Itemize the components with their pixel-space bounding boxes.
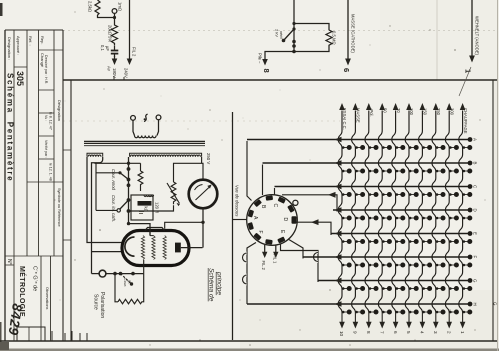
svg-text:1: 1	[464, 69, 473, 73]
grid 1 squiggle	[141, 236, 144, 260]
svg-text:µF: µF	[105, 46, 110, 51]
paper fold line horizontal	[63, 30, 497, 32]
arrow up column 6	[393, 103, 399, 110]
wire row5 connector	[297, 222, 331, 235]
wire switch1 return stub	[96, 172, 119, 174]
wire vertical main 2kV	[293, 0, 295, 52]
svg-text:0,5 MΩ: 0,5 MΩ	[332, 31, 337, 45]
potentiometer	[167, 182, 180, 206]
svg-text:F: F	[473, 256, 478, 259]
wire to resistor branch	[294, 24, 329, 31]
label Cour gr	[123, 278, 132, 287]
svg-text:Réf. :: Réf. :	[28, 36, 33, 46]
arrow left row C	[335, 184, 342, 190]
rotary switch contact pads	[248, 195, 297, 244]
wire terminal to junction	[114, 13, 116, 24]
svg-text:B: B	[473, 162, 478, 165]
row B line	[263, 162, 471, 164]
wire rail to terminal	[92, 273, 100, 275]
svg-text:Observations: Observations	[45, 287, 49, 309]
terminal secteur left	[131, 116, 136, 121]
wire rail left inner	[91, 168, 93, 274]
arrow left row A	[335, 137, 342, 143]
wire pot bottom	[129, 205, 174, 211]
grid 2 squiggle	[152, 236, 155, 260]
meter M	[189, 180, 218, 209]
svg-text:FIL 2: FIL 2	[132, 47, 137, 57]
label FIL 2	[261, 261, 266, 271]
paper bottom-left corner smudge	[0, 342, 9, 350]
svg-text:50: 50	[382, 108, 387, 113]
svg-text:gr.: gr.	[128, 280, 132, 284]
transformer core	[84, 141, 205, 145]
label Pile -	[258, 53, 263, 64]
node rail dots	[127, 162, 131, 226]
svg-text:Vue de dessous: Vue de dessous	[235, 185, 240, 217]
arrow left row E	[335, 231, 342, 237]
label 0,5 M ohm	[332, 31, 337, 45]
paper left edge mark	[0, 3, 3, 349]
wire column 1	[459, 111, 463, 313]
arrow up column 2	[446, 103, 452, 110]
label G corner	[493, 302, 498, 306]
title block label date 1	[49, 112, 53, 130]
matrix row left arrowheads	[335, 137, 342, 307]
label 2k ohm	[88, 1, 93, 12]
switch secteur	[144, 114, 148, 121]
row G line	[318, 280, 470, 282]
svg-text:MASSE (CATHODE): MASSE (CATHODE)	[351, 14, 356, 53]
node row B end	[468, 161, 473, 166]
node row A end	[468, 137, 473, 142]
svg-text:D: D	[473, 209, 478, 212]
arrow down MASSE	[345, 59, 351, 66]
svg-text:WEHNELT (ANODE): WEHNELT (ANODE)	[475, 16, 480, 56]
secondary coil B	[130, 153, 202, 157]
svg-text:Dessiné par : H.R.: Dessiné par : H.R.	[44, 55, 48, 84]
arrow up column 4	[420, 103, 426, 110]
title block text METROLOGIE	[18, 266, 27, 317]
label Cour Anod	[111, 169, 116, 191]
wire switch return vertical	[95, 163, 97, 210]
frame bottom border	[0, 340, 497, 342]
arrow down terminal 1	[462, 313, 464, 323]
wire 250V to meter	[201, 157, 203, 163]
secondary coil A	[87, 153, 103, 157]
wire row3 connector	[274, 188, 276, 195]
svg-text:Schéma de: Schéma de	[208, 268, 215, 302]
svg-text:7: 7	[379, 331, 384, 334]
arrow left row G	[335, 278, 342, 284]
title block text Schema Pentametre	[6, 73, 15, 182]
wire grid1 lead down	[143, 260, 145, 274]
node row D end	[468, 208, 473, 213]
arrow down terminal 5	[408, 313, 410, 323]
wire cathode stub lower	[92, 251, 123, 253]
title block label Symbole ou Reference	[57, 188, 61, 227]
label WEHNELT (ANODE)	[475, 16, 480, 56]
wire FIL2 vertical	[129, 0, 131, 60]
arrow down Pile	[262, 59, 268, 66]
row A line	[247, 139, 470, 141]
wire resistor bottom	[294, 48, 329, 52]
svg-text:H: H	[473, 303, 478, 306]
svg-text:4: 4	[420, 331, 425, 334]
wire column 7	[378, 111, 382, 313]
svg-text:20kΩ 5%: 20kΩ 5%	[108, 25, 113, 42]
arrow down terminal 2	[448, 313, 450, 323]
wire polar loop left	[115, 274, 118, 302]
svg-text:Source: Source	[93, 294, 99, 310]
svg-text:2 kV: 2 kV	[275, 29, 280, 37]
title block number 305	[15, 71, 25, 86]
label Polarisation	[99, 292, 105, 318]
arrow left row B	[335, 160, 342, 166]
svg-text:A: A	[473, 138, 478, 141]
label 0,1 uF	[100, 45, 110, 51]
arrow down terminal 6	[395, 313, 397, 323]
hop row8 over fil area	[243, 253, 248, 262]
title block label Change	[40, 53, 45, 68]
arrow FIL 2	[262, 245, 267, 258]
wire row1 connector	[247, 141, 252, 201]
label 180V	[112, 68, 117, 78]
svg-text:5: 5	[406, 331, 411, 334]
switch polarisation	[121, 274, 134, 286]
arrow row4 connector	[328, 192, 336, 198]
svg-text:Cour. int. cath.: Cour. int. cath.	[111, 195, 116, 222]
svg-text:3: 3	[433, 331, 438, 334]
arrow down terminal 10	[341, 313, 343, 323]
matrix column labels	[342, 108, 468, 134]
svg-text:10: 10	[339, 331, 344, 337]
title block label Ref	[28, 36, 33, 46]
svg-text:2: 2	[446, 331, 451, 334]
anode plate bar	[175, 243, 181, 253]
revision box bottom left	[17, 327, 45, 341]
label 240V	[124, 68, 129, 78]
arrow down terminal 7	[381, 313, 383, 323]
arrow left row D	[335, 207, 342, 213]
label 120V	[155, 202, 160, 213]
svg-text:Polarisation: Polarisation	[99, 292, 105, 318]
svg-text:6: 6	[342, 68, 351, 72]
wire switch2 return stub	[96, 209, 117, 211]
paper fold line horizontal 2	[63, 120, 340, 122]
wire primary left	[133, 120, 135, 135]
title block column lines	[14, 30, 54, 341]
svg-text:Rep.: Rep.	[40, 36, 45, 44]
row F line	[303, 256, 470, 258]
wire column 9	[352, 111, 356, 313]
label terminal 6	[342, 68, 351, 72]
label A	[252, 216, 258, 220]
paper bottom edge	[0, 349, 499, 351]
svg-text:150: 150	[423, 108, 428, 116]
arrow up column 10	[339, 103, 345, 110]
svg-text:F: F	[257, 231, 263, 234]
svg-text:CHAUFFAGE: CHAUFFAGE	[463, 108, 468, 134]
label 20k 5%	[108, 25, 113, 42]
rotary switch circle	[247, 195, 298, 246]
frame inner left border	[70, 80, 72, 341]
label Cour int cath	[111, 195, 116, 222]
svg-text:240V: 240V	[124, 68, 129, 78]
svg-text:Cour.: Cour.	[123, 278, 127, 287]
svg-text:principe: principe	[216, 271, 223, 295]
node row F end	[468, 255, 473, 260]
arrow left row H	[335, 301, 342, 307]
top border tick marks	[114, 76, 124, 80]
title block label Designation 2	[57, 100, 62, 121]
wire row7 connector	[281, 244, 319, 283]
capacitor 0,1uF	[111, 45, 119, 57]
wire row6 connector	[288, 239, 303, 259]
matrix row right terminals	[468, 137, 478, 306]
switch 2kV	[282, 27, 296, 42]
wire to Pile arrow	[265, 52, 294, 60]
arrow row5 connector	[311, 219, 319, 225]
svg-text:FIL 2: FIL 2	[261, 261, 266, 271]
node row C end	[468, 184, 473, 189]
row E line	[331, 233, 470, 235]
label C	[272, 204, 278, 208]
row C line	[275, 186, 471, 188]
resistor 0,5M	[326, 30, 332, 48]
arrow down Av 180V	[112, 56, 118, 65]
arrow down terminal 8	[368, 313, 370, 323]
svg-text:Vu :: Vu :	[44, 115, 48, 121]
title block number 8429	[6, 303, 25, 337]
arrow up column 7	[379, 103, 385, 110]
right margin tone	[494, 80, 499, 341]
svg-text:C: C	[272, 204, 278, 208]
wire bus vertical	[232, 112, 234, 340]
svg-text:Approuvé :: Approuvé :	[16, 36, 21, 55]
svg-text:Pile −: Pile −	[258, 53, 263, 64]
label FIL 2 top	[132, 47, 137, 57]
svg-text:MASSE: MASSE	[356, 108, 361, 123]
matrix bottom arrows and numbers	[339, 313, 465, 337]
node meter plate junction	[201, 221, 204, 224]
svg-text:Cʾᵉ Gʾᵉ de: Cʾᵉ Gʾᵉ de	[32, 266, 39, 291]
regulator box	[131, 195, 154, 220]
svg-text:1: 1	[460, 331, 465, 334]
svg-text:vérif: vérif	[279, 31, 284, 39]
label B	[260, 205, 266, 209]
hop row8 mid	[243, 275, 248, 284]
label Av	[107, 66, 112, 72]
node polarisation dots	[113, 272, 135, 276]
bottom tick marks	[52, 331, 87, 341]
svg-text:G: G	[473, 279, 478, 283]
wire row2 connector	[262, 165, 264, 196]
title block label date 2	[49, 163, 53, 181]
label 2kV	[275, 29, 285, 39]
svg-text:0,1: 0,1	[100, 45, 105, 51]
arrow up column 9	[353, 103, 359, 110]
node row G end	[468, 278, 473, 283]
grid 3 squiggle	[163, 236, 166, 260]
wire column 2	[445, 111, 449, 313]
switch Cour Anod	[118, 171, 128, 179]
wire plate to meter	[181, 247, 203, 249]
svg-text:N°: N°	[6, 259, 12, 265]
svg-text:70: 70	[396, 108, 401, 113]
wire column 3	[432, 111, 436, 313]
frame right border	[492, 80, 494, 341]
primary coil	[135, 136, 157, 138]
title block label Approuve	[16, 36, 21, 55]
svg-text:300: 300	[449, 108, 454, 116]
wire column 4	[419, 111, 423, 313]
row D line	[333, 209, 470, 211]
arrow FIL 1	[273, 245, 278, 258]
terminal polarisation	[99, 270, 106, 277]
tube envelope	[122, 231, 189, 266]
label terminal 8	[262, 69, 271, 73]
matrix contact dot pairs	[342, 145, 472, 315]
wire row8 connector	[247, 243, 256, 305]
title block label Dessine par	[44, 55, 48, 84]
wire MASSE CATHODE vertical	[347, 0, 349, 59]
title block text Cie Gle de	[32, 266, 39, 291]
resistor 20k	[112, 24, 118, 45]
node row H end	[468, 302, 473, 307]
wire rail left outer	[87, 157, 122, 243]
wire coilA right end with hop	[92, 157, 103, 168]
label E	[279, 230, 285, 234]
title block label vu	[44, 115, 48, 121]
row H line	[247, 303, 470, 305]
leader line diagonal	[459, 67, 471, 96]
svg-text:D: D	[282, 218, 288, 222]
svg-text:1 kΩ: 1 kΩ	[144, 203, 149, 212]
arrow up column 3	[433, 103, 439, 110]
terminal secteur right	[156, 115, 161, 120]
cathode arc	[125, 237, 135, 256]
wire column 5	[405, 111, 409, 313]
wire rim left pad to bus	[233, 219, 247, 221]
matrix column top arrows	[339, 103, 465, 110]
resistor R top-left 2k	[95, 0, 100, 15]
label F	[257, 231, 263, 234]
wire row4 connector	[282, 195, 337, 212]
arrow left row F	[335, 254, 342, 260]
wire horizontal y163	[95, 162, 141, 164]
resistor R anode	[138, 163, 143, 191]
svg-text:E: E	[473, 232, 478, 235]
title block row separators	[5, 50, 63, 265]
svg-text:MÉTROLOGIE: MÉTROLOGIE	[18, 266, 27, 317]
wire meter bottom	[202, 208, 204, 247]
svg-text:100: 100	[409, 108, 414, 116]
svg-text:2,5kΩ: 2,5kΩ	[88, 1, 93, 12]
title block label Observations	[45, 287, 49, 309]
svg-text:C: C	[473, 185, 478, 188]
arrow up column 1	[460, 103, 466, 110]
label grid resistor	[144, 203, 149, 212]
resistor polarisation	[118, 299, 142, 304]
wire pot top	[174, 163, 204, 182]
matrix columns with hops	[338, 111, 462, 313]
terminal 1mA	[112, 9, 117, 14]
svg-text:le 12. 1. 48: le 12. 1. 48	[49, 163, 53, 181]
label Vue de dessous	[235, 185, 240, 217]
svg-text:9: 9	[353, 331, 358, 334]
node row E end	[468, 231, 473, 236]
frame right paper edge	[497, 0, 499, 351]
wire column 10	[338, 111, 342, 313]
arrow up column 8	[366, 103, 372, 110]
svg-text:Désignation: Désignation	[57, 100, 62, 121]
svg-text:Vérifié par :: Vérifié par :	[44, 140, 48, 158]
svg-text:250: 250	[436, 108, 441, 116]
label 1mA	[118, 2, 123, 11]
svg-text:305: 305	[15, 71, 25, 86]
wire grid top cap	[129, 224, 151, 236]
svg-text:Désignation :: Désignation :	[7, 37, 12, 60]
arrow down FIL2	[127, 59, 133, 66]
wire polar loop right	[142, 274, 143, 302]
svg-text:Schéma Pentamètre: Schéma Pentamètre	[6, 73, 15, 182]
wire terminal to grid lead	[106, 273, 144, 275]
label D	[282, 218, 288, 222]
svg-text:250 V: 250 V	[206, 153, 211, 164]
svg-text:Symbole ou Référence: Symbole ou Référence	[57, 188, 61, 227]
title block label No	[6, 259, 12, 265]
svg-text:ESSAI C.C.: ESSAI C.C.	[342, 108, 347, 130]
svg-text:Cour. Anod: Cour. Anod	[111, 169, 116, 191]
svg-text:6: 6	[393, 331, 398, 334]
svg-text:le 8. 12. 47: le 8. 12. 47	[49, 112, 53, 130]
rotary switch wiper terminal	[293, 200, 298, 205]
arrow up column 5	[406, 103, 412, 110]
wire column 6	[392, 111, 396, 313]
hop row7 over row6	[314, 253, 319, 262]
arrow down terminal 4	[421, 313, 423, 323]
label terminal 1	[464, 69, 473, 73]
arrow down terminal 3	[435, 313, 437, 323]
node junction top	[292, 22, 295, 25]
title block label Designation	[7, 37, 12, 60]
arrow down WEHNELT	[469, 56, 475, 63]
gutter tie lines	[63, 150, 71, 240]
svg-text:1mΩ: 1mΩ	[118, 2, 123, 11]
wire column 8	[365, 111, 369, 313]
wire primary right	[157, 120, 159, 136]
svg-text:-Pol.: -Pol.	[369, 108, 374, 117]
frame top border	[63, 79, 497, 81]
svg-text:FIL 1: FIL 1	[273, 254, 278, 264]
wire WEHNELT vertical	[471, 0, 473, 56]
tube top cap bump	[145, 228, 165, 231]
arrow down terminal 9	[354, 313, 356, 323]
svg-text:8: 8	[262, 69, 271, 73]
label Schema de principe	[208, 268, 223, 302]
wire main rail	[128, 157, 130, 224]
label MASSE (CATHODE)	[351, 14, 356, 53]
label FIL 1	[273, 254, 278, 264]
label Source	[93, 294, 99, 310]
wire screen grid to junction	[165, 222, 203, 229]
node A junction	[113, 16, 116, 19]
title block outer lines	[5, 30, 63, 341]
title block label Verifie par	[44, 140, 48, 158]
matrix rows	[247, 140, 470, 305]
label 250V	[206, 153, 211, 164]
switch Cour cath	[117, 200, 129, 212]
